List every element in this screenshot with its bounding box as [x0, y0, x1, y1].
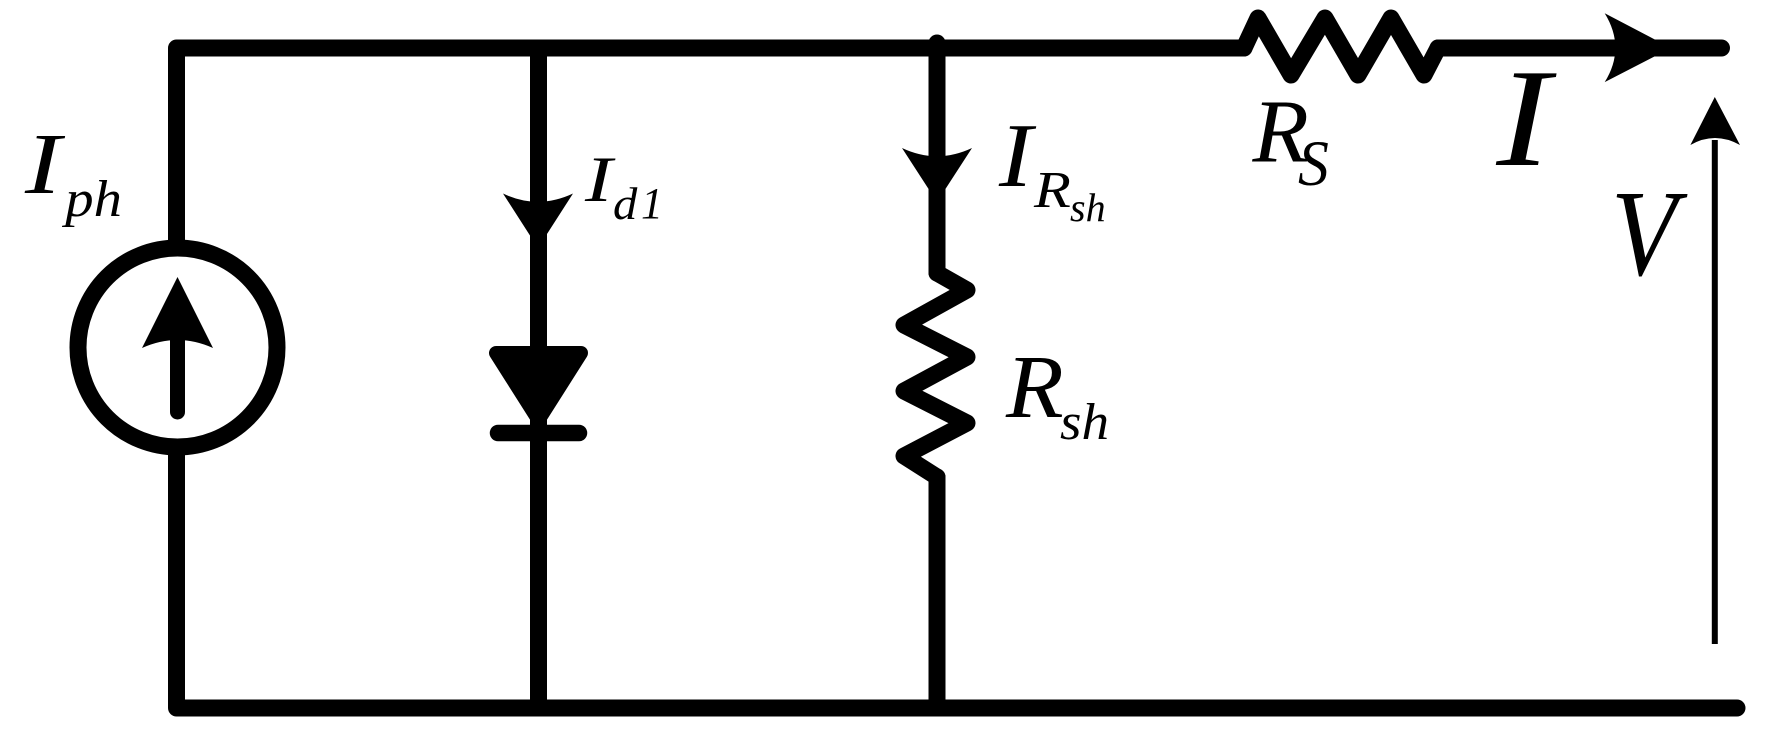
label I_d1 — [584, 143, 663, 230]
wire shunt branch lower — [929, 477, 946, 708]
svg-text:I: I — [1495, 40, 1557, 196]
label R_S — [1251, 82, 1328, 200]
svg-text:1: 1 — [641, 179, 663, 228]
resistor RS — [1244, 18, 1438, 75]
resistor Rsh — [904, 273, 967, 477]
label I_Rsh — [998, 105, 1106, 230]
wire diode branch — [530, 48, 547, 708]
svg-text:S: S — [1298, 128, 1329, 200]
diode D1 — [496, 353, 581, 433]
label R_sh — [1005, 337, 1109, 451]
current arrow I — [1605, 13, 1671, 82]
svg-text:ph: ph — [61, 170, 122, 227]
label I_ph — [24, 117, 122, 228]
current source Iph — [78, 248, 277, 447]
svg-text:d: d — [613, 180, 638, 230]
svg-text:I: I — [584, 143, 616, 215]
node junction dot — [929, 35, 946, 52]
svg-text:sh: sh — [1060, 392, 1109, 450]
svg-text:R: R — [1033, 162, 1071, 219]
svg-text:V: V — [1611, 166, 1688, 302]
current arrow Id1 — [503, 194, 573, 249]
svg-text:I: I — [998, 105, 1037, 206]
current arrow IRsh — [902, 148, 972, 202]
svg-text:R: R — [1005, 337, 1064, 436]
wire shunt branch upper — [929, 48, 946, 273]
wire top-left (left vertical upper + top horizontal to series resistor) — [177, 48, 1245, 240]
wire bottom (left vertical lower + bottom horizontal rail) — [177, 455, 1738, 708]
wire top-right (after series resistor to output terminal) — [1438, 40, 1722, 57]
voltage arrow V — [1690, 97, 1740, 644]
svg-text:I: I — [24, 117, 66, 213]
svg-text:sh: sh — [1070, 185, 1106, 230]
